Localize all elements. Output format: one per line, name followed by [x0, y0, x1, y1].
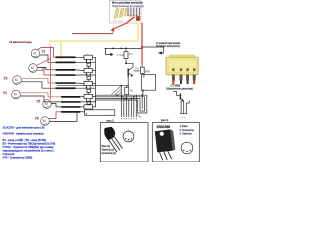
- motor wires M2: [37, 59, 51, 66]
- wires bars to resistors: [76, 57, 96, 112]
- transistor VT1: [128, 67, 140, 77]
- svg-text:рис.1: рис.1: [107, 118, 115, 122]
- motor M5: [37, 100, 52, 109]
- motor wires M4: [21, 93, 62, 97]
- top rail: [105, 47, 143, 49]
- svg-text:М: М: [15, 78, 18, 82]
- TO-92 package Q1: [104, 127, 122, 152]
- red wire inside photo: [127, 17, 135, 23]
- legend text: [3, 126, 56, 160]
- svg-text:У3/У4/У6 - импульсные клапаны: У3/У4/У6 - импульсные клапаны: [3, 132, 44, 136]
- TO-92 pin text: [102, 146, 117, 155]
- svg-text:У1/У2/У5 - для вентиляторов 1А: У1/У2/У5 - для вентиляторов 1А): [3, 126, 45, 130]
- motor wires M1: [38, 48, 56, 58]
- svg-text:М: М: [33, 52, 36, 56]
- svg-text:3. Эмиттер: 3. Эмиттер: [180, 133, 193, 136]
- motor M6: [35, 117, 49, 126]
- svg-text:У5: У5: [37, 100, 41, 104]
- wire VT1 down: [127, 77, 129, 86]
- svg-text:В3 - Реле-резистор ПВО(штатный: В3 - Реле-резистор ПВО(штатный) (к 5 В): [3, 142, 56, 146]
- svg-text:М: М: [31, 66, 34, 70]
- svg-text:открытия: открытия: [3, 153, 15, 156]
- svg-text:УТ323 - Транзистор КВЕ(ВЕ) для: УТ323 - Транзистор КВЕ(ВЕ) для схемы: [3, 145, 54, 149]
- svg-text:к: к: [134, 132, 135, 134]
- connector pins in photo: [127, 7, 141, 17]
- wire W2 (faded red horizontal): [72, 33, 113, 35]
- svg-text:М вентиляторы: М вентиляторы: [10, 40, 33, 44]
- long base wire: [57, 85, 128, 87]
- fig1 box: [100, 123, 148, 163]
- crossing wires: [111, 86, 121, 97]
- svg-text:R2: R2: [130, 89, 134, 93]
- resistor R2: [125, 87, 129, 94]
- svg-text:М: М: [14, 93, 17, 97]
- svg-text:У6: У6: [35, 117, 39, 121]
- svg-text:УТ4 - Транзистор 2(SB): УТ4 - Транзистор 2(SB): [3, 156, 33, 160]
- relay legs: [172, 75, 195, 81]
- motor M4: [3, 90, 20, 99]
- svg-text:База (б): База (б): [102, 146, 111, 148]
- resistor R4: [124, 51, 128, 58]
- svg-text:27м: 27м: [135, 68, 140, 71]
- transistor VT4 symbol: [173, 92, 190, 103]
- svg-text:М: М: [45, 102, 48, 106]
- motor wires M5: [52, 104, 62, 107]
- input plug arrow: [105, 48, 110, 54]
- wire to heater resistor note: [142, 47, 164, 53]
- svg-text:Коллектор (к): Коллектор (к): [102, 153, 117, 155]
- svg-text:2. Коллектор: 2. Коллектор: [180, 129, 195, 132]
- svg-text:У3: У3: [4, 77, 8, 81]
- motor wires M3: [22, 78, 56, 83]
- svg-text:У1: У1: [42, 50, 46, 54]
- left rail: [95, 62, 97, 100]
- svg-text:R4: R4: [129, 52, 133, 56]
- right pin comb: [180, 101, 187, 114]
- red wire W1 (diagonal from connector): [113, 23, 128, 29]
- svg-text:М: М: [43, 119, 46, 123]
- relay leg wires: [172, 80, 195, 84]
- yellow wire W4 branch: [60, 41, 62, 59]
- svg-text:1. База: 1. База: [180, 125, 189, 128]
- svg-text:(климат контроля): (климат контроля): [156, 44, 180, 48]
- red wire W5 (right vertical): [141, 23, 143, 64]
- fig2 box: [152, 123, 199, 163]
- connector photo box J1: [110, 1, 145, 24]
- connector bars group: [55, 56, 80, 112]
- svg-text:У4: У4: [3, 91, 7, 95]
- pin list: [180, 125, 195, 136]
- left pin loops: [138, 95, 147, 113]
- red wire W8 left vertical: [50, 46, 52, 100]
- yellow wire W3: [50, 23, 138, 46]
- svg-text:(Управление данными): (Управление данными): [166, 88, 193, 91]
- svg-text:саморазрядного потребителя (2-: саморазрядного потребителя (2-х вент.): [3, 149, 54, 153]
- wire R4 top/bottom: [126, 48, 133, 67]
- small resistors column: [84, 55, 93, 109]
- motor M1: [31, 49, 45, 58]
- motor M2: [29, 64, 46, 73]
- svg-text:В1 - вход +12(В) ; В2 - вход: В1 - вход +12(В) ; В2 - вход (В 5В): [3, 138, 46, 142]
- TO-220 package Q2: [155, 129, 176, 160]
- bus lines: [96, 95, 147, 100]
- svg-text:R7б: R7б: [145, 71, 150, 74]
- svg-text:17Ом: 17Ом: [117, 53, 124, 57]
- component box B3: [85, 110, 115, 116]
- relay box K2: [141, 74, 143, 75]
- resistor R7: [140, 67, 144, 73]
- wire R2 top/down: [126, 86, 128, 100]
- wire W6 black below red: [141, 64, 143, 67]
- svg-text:рис.2: рис.2: [161, 118, 169, 122]
- motor M3: [4, 76, 22, 85]
- svg-text:Эмиттер (э): Эмиттер (э): [102, 149, 115, 151]
- TO-92 bottom view B1: [122, 130, 136, 142]
- orange wire blob in photo: [136, 16, 140, 21]
- relay module K1 (yellow): [166, 55, 198, 75]
- yellow wires in photo: [114, 8, 126, 19]
- svg-text:2SB1566: 2SB1566: [157, 125, 171, 129]
- svg-text:1 2 3: 1 2 3: [180, 118, 186, 120]
- motor wires M6: [50, 112, 81, 122]
- svg-text:вид сзади: вид сзади: [113, 21, 123, 23]
- TO-220 bottom view B2: [181, 142, 194, 154]
- bus drops: [121, 86, 136, 117]
